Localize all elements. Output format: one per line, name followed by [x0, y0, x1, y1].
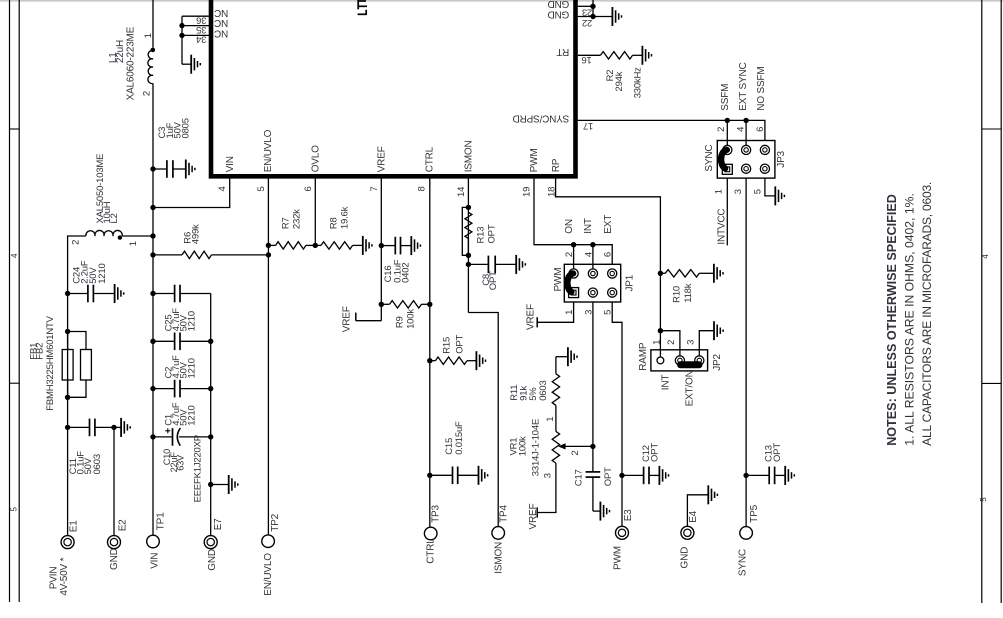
IC U1 part number label (cropped fragment) — [358, 0, 367, 14]
pin 7 VREF wire — [380, 178, 382, 321]
pin label NC 34 — [214, 27, 228, 38]
svg-text:VREF: VREF — [342, 306, 353, 332]
svg-text:5: 5 — [10, 507, 19, 512]
L1 pin number 2 — [141, 91, 152, 96]
junction FB top — [65, 329, 70, 334]
svg-text:GND: GND — [109, 548, 120, 570]
svg-text:SYNC: SYNC — [737, 549, 748, 576]
label E1 — [69, 520, 80, 532]
C1 labels — [164, 402, 198, 426]
turret E2 — [108, 536, 121, 549]
junction R7 left — [266, 243, 271, 248]
svg-text:SYNC/SPRD: SYNC/SPRD — [513, 112, 570, 123]
label TP5 — [749, 504, 760, 522]
svg-text:5: 5 — [256, 186, 267, 191]
capacitor C24 — [68, 285, 94, 303]
wire VR1 pin3 to VREF stub — [537, 463, 556, 517]
svg-text:4V-50V *: 4V-50V * — [59, 557, 70, 595]
R10 labels — [672, 283, 694, 303]
junction VR1 wiper — [590, 444, 595, 449]
wire L2 pin2 to PVIN rail — [68, 236, 86, 294]
svg-text:100k: 100k — [518, 436, 529, 456]
svg-text:118k: 118k — [683, 283, 694, 303]
pin 35 NC wire — [182, 25, 209, 27]
capacitor C10 (polarized) — [153, 428, 211, 446]
FB labels — [28, 315, 56, 410]
svg-text:3: 3 — [733, 189, 744, 194]
pin 19 PWM wire — [534, 178, 612, 264]
R13 labels — [476, 224, 498, 243]
net label GND E7 — [207, 549, 218, 571]
svg-text:0.015uF: 0.015uF — [454, 421, 465, 455]
JP3 pin numbers bottom 1 3 5 — [714, 189, 764, 194]
label JP1 — [625, 274, 636, 291]
junction R6 right — [266, 252, 271, 257]
svg-text:0603: 0603 — [92, 454, 103, 474]
junction VIN pin4 — [150, 205, 155, 210]
test point TP4 — [492, 527, 505, 540]
pin 5 EN/UVLO wire — [267, 178, 269, 535]
VR1 pin3 number — [543, 473, 554, 478]
C13 labels — [763, 443, 783, 462]
test point TP1 — [147, 535, 160, 548]
resistor R6 499k — [153, 251, 268, 258]
wire PVIN rail — [67, 294, 69, 536]
wire L1 to VIN rail — [152, 84, 154, 536]
resistor R13 OPT — [465, 212, 472, 255]
svg-text:PWM: PWM — [612, 546, 623, 570]
svg-text:PVIN: PVIN — [48, 567, 59, 590]
label TP4 — [498, 505, 509, 523]
junction C25 left — [150, 291, 155, 296]
pin label NC 35 — [214, 17, 228, 28]
wire JP3 pin2 — [726, 120, 728, 145]
junction C2 left — [150, 339, 155, 344]
ground C12 — [650, 466, 669, 485]
svg-text:TP2: TP2 — [270, 513, 281, 531]
svg-text:INT: INT — [583, 218, 594, 234]
svg-text:VIN: VIN — [225, 156, 236, 172]
header JP2 — [651, 350, 708, 371]
pin 17 SYNC/SPRD wire — [578, 120, 765, 140]
ground R10 — [699, 264, 723, 283]
svg-text:NOTES: UNLESS OTHERWISE SPECI: NOTES: UNLESS OTHERWISE SPECIFIED — [885, 194, 899, 446]
JP1 pin numbers top 2 4 6 — [564, 252, 614, 257]
junction C11/E2 — [111, 425, 116, 430]
svg-text:18: 18 — [547, 187, 558, 197]
capacitor C1 — [153, 380, 211, 398]
svg-text:1: 1 — [143, 33, 154, 38]
svg-text:3314J-1-104E: 3314J-1-104E — [530, 419, 541, 476]
net label CTRL — [426, 538, 437, 564]
svg-text:0805: 0805 — [180, 118, 191, 138]
op-amp/regulator IC U1 body (LT8646S) — [211, 0, 576, 176]
capacitor C15 — [430, 467, 458, 485]
svg-text:TP4: TP4 — [498, 505, 509, 523]
pin label SYNC/SPRD — [513, 112, 570, 123]
svg-text:1210: 1210 — [186, 311, 197, 331]
junction gnd stub — [208, 482, 213, 487]
svg-text:36: 36 — [196, 14, 206, 25]
svg-text:EN/UVLO: EN/UVLO — [263, 129, 274, 172]
resistor R7 232k — [268, 242, 315, 249]
test point TP2 — [262, 535, 275, 548]
ground C15 — [458, 466, 487, 485]
capacitor C12 OPT — [622, 467, 649, 485]
svg-text:SSFM: SSFM — [720, 84, 731, 111]
pin 16 RT wire — [578, 54, 601, 56]
svg-text:1: 1 — [714, 189, 725, 194]
junction L2 — [150, 233, 155, 238]
zone label 5 right — [979, 497, 988, 502]
svg-text:ISMON: ISMON — [493, 542, 504, 574]
wire JP2 pin3 to ground — [699, 331, 713, 356]
C10 labels — [162, 435, 203, 502]
capacitor C11 — [68, 419, 114, 437]
C11 labels — [68, 451, 103, 475]
net label SYNC — [737, 549, 748, 576]
C15 labels — [444, 421, 465, 455]
VR1 wiper arrow — [558, 443, 593, 449]
VR1 pin1 number — [545, 417, 556, 422]
pin label RT — [556, 46, 569, 57]
R8 labels — [328, 206, 350, 229]
C24 labels — [71, 260, 108, 284]
svg-text:OPT: OPT — [455, 334, 466, 353]
ground C3 — [174, 160, 195, 179]
svg-text:C17: C17 — [574, 469, 585, 486]
pin number 16 — [582, 54, 592, 65]
svg-text:FB2: FB2 — [35, 343, 46, 360]
junction pin34 — [179, 33, 184, 38]
svg-text:GND: GND — [548, 9, 570, 20]
svg-text:OPT: OPT — [603, 467, 614, 486]
JP1 shunt on pins 1-2 — [567, 273, 572, 292]
svg-text:ON: ON — [564, 219, 575, 234]
pin 36 NC wire — [182, 15, 209, 17]
JP2 shunt on pins 2-3 — [681, 361, 700, 368]
svg-text:100k: 100k — [405, 309, 416, 329]
junction R9 left — [379, 302, 384, 307]
svg-text:GND: GND — [548, 0, 570, 9]
VREF stub wire — [356, 313, 382, 321]
inductor L1 — [148, 48, 155, 84]
capacitor C2 — [153, 333, 211, 351]
L1 value labels — [108, 26, 137, 100]
JP3 pin numbers top 2 4 6 — [716, 127, 766, 132]
FB wiring — [68, 332, 86, 398]
R11 labels — [509, 380, 549, 400]
sheet border frame right — [982, 0, 1001, 603]
C16 labels — [383, 259, 411, 283]
pin 8 CTRL wire — [429, 178, 431, 527]
svg-text:34: 34 — [196, 34, 206, 45]
net label PWM (E3) — [612, 546, 623, 570]
svg-text:22: 22 — [582, 17, 592, 28]
capacitor C3 — [153, 160, 173, 178]
C8 labels — [481, 271, 499, 290]
svg-text:1210: 1210 — [186, 405, 197, 425]
svg-text:ALL CAPACITORS ARE IN MICROFAR: ALL CAPACITORS ARE IN MICROFARADS, 0603. — [920, 182, 934, 446]
R2 labels — [605, 67, 644, 98]
JP3 shunt on pins 1-2 — [721, 150, 726, 169]
net label VIN TP1 — [150, 553, 161, 569]
capacitor C17 OPT (vertical) — [586, 446, 601, 511]
pin number 23 — [582, 7, 592, 18]
svg-text:E4: E4 — [688, 510, 699, 522]
svg-text:6: 6 — [303, 186, 314, 191]
C10 plus sign — [165, 428, 170, 433]
svg-text:5: 5 — [979, 497, 988, 502]
L2 pin number 2 — [71, 240, 82, 245]
junction JP3 pin2 — [725, 118, 730, 123]
junction C16 — [379, 243, 384, 248]
pin number 35 — [196, 24, 206, 35]
net label PVIN 4V-50V — [48, 557, 70, 595]
svg-text:VREF: VREF — [377, 146, 388, 172]
svg-text:INTVCC: INTVCC — [716, 209, 727, 245]
capacitor C8 OPT — [468, 256, 495, 274]
wire JP1 pin1 to VREF stub — [537, 302, 573, 327]
turret E4 — [681, 526, 694, 539]
junction C8 — [466, 262, 471, 267]
ground C24 — [94, 284, 124, 303]
svg-text:16: 16 — [582, 54, 592, 65]
svg-text:VREF: VREF — [528, 504, 539, 530]
L2 value labels — [95, 154, 120, 224]
junction C2 right — [208, 339, 213, 344]
label JP2 — [712, 354, 723, 371]
ground R8 — [353, 236, 372, 255]
ground bus stub — [211, 475, 238, 494]
net label GND E2 — [109, 548, 120, 570]
R9 labels — [394, 309, 416, 329]
C25 labels — [164, 308, 198, 332]
pin 18 RP wire — [556, 178, 661, 357]
net label VREF (R9) — [342, 306, 353, 332]
zone label 5 left — [10, 507, 19, 512]
svg-text:19.6k: 19.6k — [340, 206, 351, 229]
wire JP2 pin2 — [660, 331, 680, 356]
svg-text:E3: E3 — [623, 509, 634, 521]
junction JP2 pin2 net — [658, 328, 663, 333]
svg-text:E1: E1 — [69, 520, 80, 532]
wire JP1 pin3 to VR1 wiper — [592, 302, 594, 446]
svg-text:6: 6 — [603, 252, 614, 257]
JP1 pin numbers bottom 1 3 5 — [564, 310, 614, 315]
wire SW net from top to L1 — [152, 0, 154, 48]
sheet border frame left — [10, 0, 20, 602]
ground pins 22/23 — [612, 7, 621, 26]
svg-text:SYNC: SYNC — [704, 145, 715, 172]
svg-text:4: 4 — [217, 186, 228, 191]
R7 labels — [280, 209, 302, 229]
svg-text:7: 7 — [369, 186, 380, 191]
svg-text:RAMP: RAMP — [638, 342, 649, 371]
svg-text:OPT: OPT — [649, 443, 660, 462]
pin 22 GND wire — [578, 16, 612, 18]
zone label 4 left — [10, 253, 19, 258]
pin 23 GND wire — [578, 0, 593, 17]
test point TP3 — [424, 527, 437, 540]
wire cap bank right bus — [210, 294, 212, 536]
wire L2 pin1 to VIN rail — [122, 235, 153, 237]
JP2 pin numbers 1 2 3 — [652, 340, 697, 345]
junction C12 — [619, 473, 624, 478]
ground R2 — [633, 46, 652, 65]
ferrite bead FB1 — [62, 350, 73, 381]
svg-text:L2: L2 — [109, 213, 120, 223]
svg-text:VIN: VIN — [150, 553, 161, 569]
pin number 22 — [582, 17, 592, 28]
junction C3 — [150, 166, 155, 171]
capacitor C13 OPT — [746, 467, 775, 485]
svg-text:1. ALL RESISTORS ARE IN OHMS,: 1. ALL RESISTORS ARE IN OHMS, 0402, 1%. — [903, 193, 917, 446]
pin number 34 — [196, 34, 206, 45]
junction C11 — [65, 425, 70, 430]
IC pin name labels (bottom edge) — [225, 129, 562, 172]
svg-text:EEEFK1J220XP: EEEFK1J220XP — [192, 435, 203, 502]
wire JP3 pin5 to ground — [765, 178, 785, 205]
label E7 — [213, 518, 224, 530]
pin label GND 23 — [548, 0, 570, 9]
resistor R2 294k — [601, 52, 633, 59]
label PWM (JP1) — [553, 268, 564, 292]
svg-text:2: 2 — [141, 91, 152, 96]
svg-text:INT: INT — [660, 375, 671, 391]
svg-text:294k: 294k — [614, 71, 625, 91]
IC pin numbers (bottom edge) — [217, 186, 557, 197]
svg-text:4: 4 — [981, 254, 990, 259]
ground C16 — [401, 236, 420, 255]
svg-text:23: 23 — [582, 7, 592, 18]
JP1 option labels ON INT EXT — [564, 215, 614, 234]
junction pin35 — [179, 23, 184, 28]
C2 labels — [164, 355, 198, 379]
junction pin23 — [590, 4, 595, 9]
label TP1 — [156, 512, 167, 530]
svg-text:RT: RT — [556, 46, 569, 57]
R15 labels — [442, 334, 466, 353]
junction R15 — [427, 358, 432, 363]
turret E1 — [61, 536, 74, 549]
net label VREF (VR1) — [528, 504, 539, 530]
svg-text:1210: 1210 — [186, 358, 197, 378]
svg-text:R15: R15 — [442, 337, 453, 354]
svg-text:R7: R7 — [280, 217, 291, 229]
pin label NC 36 — [214, 7, 228, 18]
svg-text:35: 35 — [196, 24, 206, 35]
capacitor C16 — [381, 237, 400, 255]
svg-text:1210: 1210 — [97, 263, 108, 283]
ground E4 — [687, 485, 717, 526]
svg-text:2: 2 — [666, 340, 677, 345]
C17 labels — [574, 467, 615, 486]
junction C1 right — [208, 386, 213, 391]
svg-text:NO SSFM: NO SSFM — [756, 67, 767, 111]
ground C17 — [593, 502, 610, 521]
svg-text:5: 5 — [753, 189, 764, 194]
svg-text:R13: R13 — [476, 227, 487, 244]
turret E3 — [616, 526, 629, 539]
svg-text:RP: RP — [551, 158, 562, 172]
net label INTVCC — [716, 209, 727, 245]
svg-text:EXT/ON: EXT/ON — [685, 370, 696, 406]
wire JP3 pin3 to TP5 — [745, 178, 747, 527]
junction R13 bottom — [466, 253, 471, 258]
C3 labels — [157, 118, 191, 138]
svg-text:22uH: 22uH — [115, 40, 126, 63]
zone label 4 right — [981, 254, 990, 259]
junction JP3 pin4 — [743, 118, 748, 123]
svg-text:1: 1 — [545, 417, 556, 422]
svg-text:OVLO: OVLO — [311, 145, 322, 172]
svg-text:63V: 63V — [175, 454, 185, 471]
capacitor C25 — [153, 285, 211, 303]
svg-text:ISMON: ISMON — [463, 141, 474, 173]
VR1 labels — [509, 419, 542, 476]
junction C10 right — [208, 434, 213, 439]
ground R11 top — [556, 347, 577, 374]
label JP3 — [776, 150, 787, 167]
ground C13 — [775, 466, 794, 485]
svg-text:GND: GND — [207, 549, 218, 571]
svg-text:TP1: TP1 — [156, 512, 167, 530]
junction C15 — [427, 473, 432, 478]
label TP3 — [431, 505, 442, 523]
ground NC bracket — [182, 55, 200, 74]
JP2 option labels INT EXT/ON — [660, 370, 695, 406]
wire E2 — [113, 427, 115, 536]
svg-text:0603: 0603 — [538, 380, 549, 400]
svg-text:TP3: TP3 — [431, 505, 442, 523]
net label VREF (JP1) — [525, 304, 536, 330]
svg-text:3: 3 — [543, 473, 554, 478]
svg-text:E2: E2 — [118, 519, 129, 531]
svg-text:CTRL: CTRL — [425, 146, 436, 172]
resistor R9 100k — [381, 301, 430, 308]
svg-text:NC: NC — [214, 27, 228, 38]
svg-text:FBMH3225HM601NTV: FBMH3225HM601NTV — [45, 315, 56, 410]
wire JP1 pin2 — [573, 245, 575, 269]
svg-text:OPT: OPT — [772, 443, 783, 462]
svg-text:R8: R8 — [328, 217, 339, 229]
label E4 — [688, 510, 699, 522]
svg-text:JP1: JP1 — [625, 274, 636, 291]
wire JP3 pin1 INTVCC stub — [726, 178, 728, 245]
pin 6 OVLO wire — [314, 178, 316, 245]
svg-text:TP5: TP5 — [749, 504, 760, 522]
NC bracket wire — [181, 16, 183, 64]
resistor R15 OPT — [430, 357, 467, 364]
resistor R8 19.6k — [315, 242, 352, 249]
svg-text:0402: 0402 — [401, 263, 412, 283]
svg-text:R9: R9 — [394, 316, 405, 328]
svg-text:2: 2 — [564, 252, 575, 257]
svg-text:232k: 232k — [291, 209, 302, 229]
junction FB bottom — [65, 395, 70, 400]
junction C13 — [743, 473, 748, 478]
ground C11 — [114, 418, 130, 437]
svg-text:GND: GND — [680, 547, 691, 569]
junction C24 — [65, 291, 70, 296]
pin number 17 — [583, 120, 593, 131]
inductor L2 — [86, 230, 122, 239]
svg-text:1: 1 — [652, 340, 663, 345]
svg-text:R10: R10 — [672, 286, 683, 303]
svg-text:3: 3 — [685, 340, 696, 345]
svg-text:499k: 499k — [190, 224, 201, 244]
